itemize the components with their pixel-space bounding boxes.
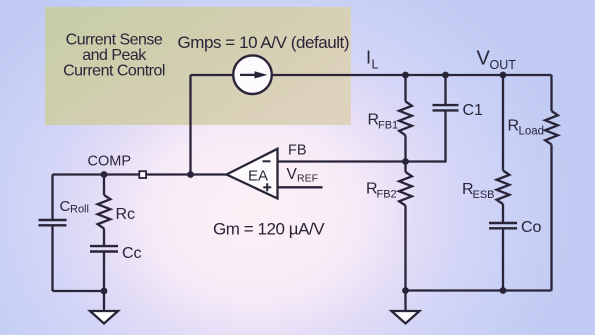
- capacitor CRoll plates: [39, 220, 67, 225]
- svg-text:EA: EA: [248, 168, 268, 185]
- svg-text:Roll: Roll: [70, 204, 89, 216]
- node: junction dot VOUT / RESB branch: [500, 72, 507, 79]
- svg-text:L: L: [372, 58, 379, 72]
- svg-text:Load: Load: [519, 126, 545, 138]
- label IL: [366, 48, 379, 72]
- resistor RFB1: [399, 75, 412, 162]
- svg-text:Co: Co: [521, 219, 542, 236]
- node: junction dot top rail / C1: [442, 72, 449, 79]
- ground (right): [392, 291, 420, 324]
- label RFB1: [368, 112, 399, 132]
- resistor Rc zigzag: [98, 195, 111, 229]
- svg-text:Cc: Cc: [122, 245, 142, 262]
- svg-text:FB1: FB1: [378, 120, 398, 132]
- wire: FB wire from EA to feedback node: [278, 160, 406, 162]
- resistor RLoad branch: [545, 75, 558, 291]
- resistor RFB2: [399, 162, 412, 291]
- node: junction dot bottom rail / RFB2: [402, 287, 409, 294]
- svg-text:Current Sense: Current Sense: [66, 32, 163, 49]
- node: junction dot at left ground: [101, 288, 108, 295]
- svg-text:C1: C1: [463, 102, 484, 119]
- svg-text:Gmps = 10 A/V (default): Gmps = 10 A/V (default): [178, 33, 350, 52]
- svg-text:V: V: [287, 166, 298, 183]
- capacitor Cc plates: [90, 246, 118, 251]
- capacitor CRoll branch wires: [51, 175, 53, 292]
- shaded block: Current Sense and Peak Current Control: [45, 7, 351, 125]
- wire: left vertical from top rail down to COMP node: [189, 75, 191, 175]
- op-amp EA triangle: [227, 149, 278, 199]
- label RESB: [462, 181, 495, 201]
- svg-text:R: R: [508, 118, 520, 135]
- resistor Rc branch wires: [103, 175, 105, 292]
- node: small open square on COMP wire: [139, 171, 146, 178]
- label VOUT: [477, 48, 517, 73]
- label RLoad: [508, 118, 545, 138]
- svg-text:Current Control: Current Control: [63, 62, 165, 79]
- node: junction dot FB node: [402, 158, 409, 165]
- current source Gmps (circle with right arrow): [233, 55, 272, 94]
- svg-text:OUT: OUT: [490, 58, 517, 72]
- wire: top rail from current source node to VOUT rail: [191, 74, 552, 76]
- svg-text:REF: REF: [297, 173, 318, 185]
- svg-text:Rc: Rc: [116, 206, 136, 223]
- wire: COMP horizontal wire: [53, 173, 227, 175]
- svg-text:FB2: FB2: [377, 189, 397, 201]
- svg-text:C: C: [60, 198, 71, 215]
- wire: bottom-left wire joining CRoll and Rc branches: [53, 290, 105, 292]
- svg-text:FB: FB: [288, 143, 307, 159]
- node: junction dot COMP / left vertical: [187, 171, 194, 178]
- node: junction dot bottom rail / Co: [500, 287, 507, 294]
- ground (left): [90, 291, 118, 324]
- label VREF: [287, 166, 319, 185]
- label RFB2: [366, 181, 397, 201]
- label CRoll: [60, 198, 89, 216]
- svg-text:ESB: ESB: [473, 189, 495, 201]
- node: junction dot top rail / RFB1: [402, 72, 409, 79]
- wire: VREF stub: [278, 186, 323, 188]
- capacitor C1: [406, 75, 459, 162]
- svg-text:V: V: [477, 48, 491, 70]
- svg-text:I: I: [366, 48, 371, 68]
- svg-text:COMP: COMP: [88, 154, 132, 170]
- node: junction dot COMP / Rc branch: [101, 171, 108, 178]
- wire: bottom rail: [406, 289, 552, 291]
- svg-text:Gm = 120 µA/V: Gm = 120 µA/V: [213, 220, 325, 239]
- resistor RESB and capacitor Co branch: [489, 75, 517, 291]
